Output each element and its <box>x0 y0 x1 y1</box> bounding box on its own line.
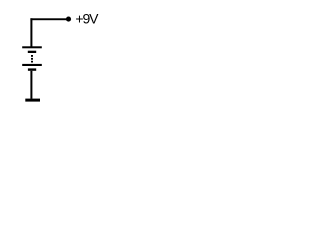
battery B1 negative short plate (cell 2) <box>28 68 36 70</box>
node +9V (junction dot) <box>66 17 71 22</box>
battery B1 positive long plate (cell 1) <box>22 46 42 48</box>
wire from battery - terminal down to ground <box>30 71 32 99</box>
ground bar <box>25 99 40 102</box>
battery B1 omitted-cells dotted line <box>31 55 33 57</box>
battery B1 positive long plate (cell 2) <box>22 64 42 66</box>
svg-text:+9V: +9V <box>75 10 99 26</box>
wire horizontal to +9V node <box>30 18 68 20</box>
battery B1 negative short plate (cell 1) <box>28 51 36 53</box>
wire vertical from battery + terminal up <box>30 18 32 46</box>
